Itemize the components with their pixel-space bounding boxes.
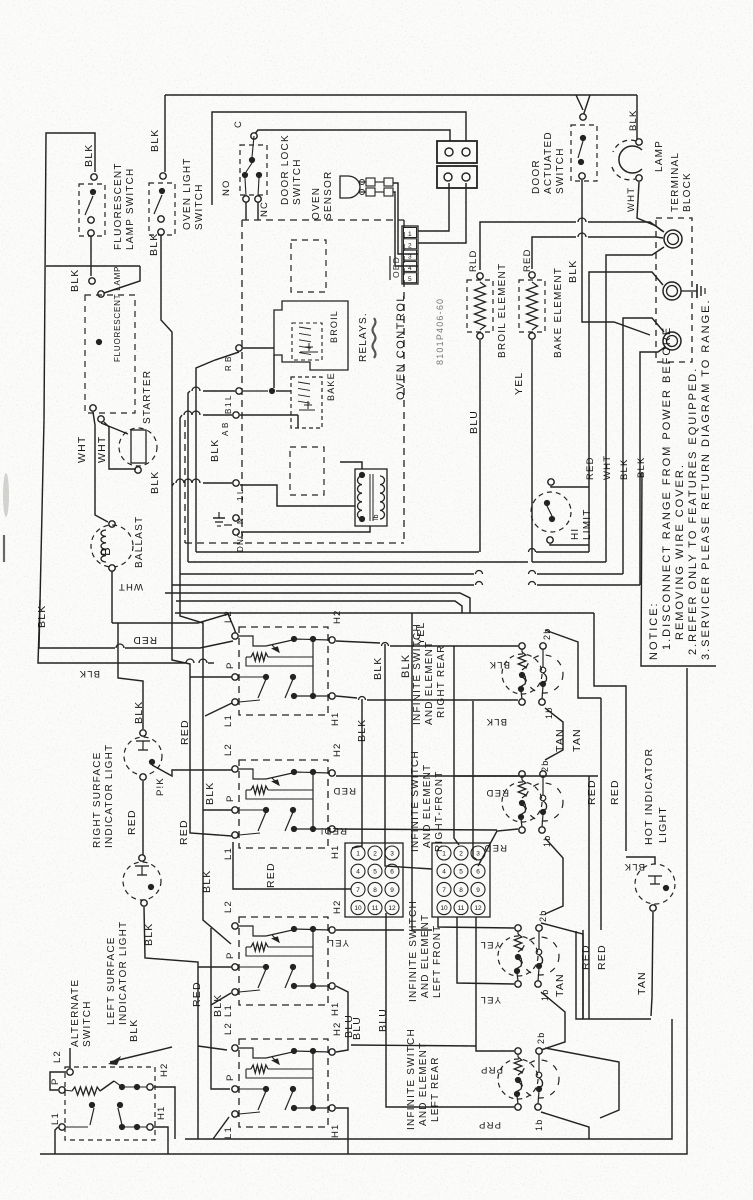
light hot indicator [635,864,675,904]
wire L1 left rear feed [213,1117,229,1139]
terminal GND upper [233,515,239,521]
wire P left front feed [198,966,232,968]
oven sensor probe [340,176,360,198]
switch infinite switch left rear [239,1039,328,1127]
wire H1 left rear to border [336,1108,348,1154]
wire oven light switch to bus [161,235,172,585]
clock module box [290,447,324,495]
wire left light down [144,907,198,1139]
wire bus horizontal lower [165,593,470,613]
wire L1 right rear feed [205,703,232,716]
oven sensor connector [366,178,375,186]
wire element RF left top [455,775,518,777]
mark relays subtitle smudge [373,318,376,358]
ballast B1 [109,521,115,527]
switch alternate switch [65,1067,155,1140]
wire H1 right front [336,829,497,830]
wire H1 LF to H2 LR BLU [336,986,348,1052]
resistor bake element [529,272,535,278]
wire H2 chain down [594,613,626,851]
wire RED riser [589,272,663,552]
spare dashed box upper [291,240,326,292]
wire WHT riser [606,247,664,562]
wire element LR left bottom [386,913,514,1107]
wire 1b left front chain [541,992,565,1050]
ground symbol [681,290,697,292]
wire alternate H2 [154,1087,175,1139]
wire bus horizontal BLK3 [180,573,474,575]
switch infinite switch right rear [239,627,328,715]
wire feed door actuated switch [576,95,583,110]
relay broil [274,301,348,370]
wire L1B node to bake [276,390,291,392]
wire L1 to transformer [240,485,355,506]
wire to fluorescent lamp [90,262,92,276]
wire fluorescent feed frame [39,133,95,648]
wire BR to broil relay [243,347,274,349]
light right surface indicator [124,737,162,775]
lamp oven lamp [636,139,642,145]
wire P right front feed [203,809,232,811]
fluorescent lamp FL1 [89,278,95,284]
wire hi-limit top [551,486,589,487]
starter S1 [119,428,157,466]
switch fluorescent lamp switch [91,174,97,180]
wire element LF left bottom [457,917,514,984]
wire alternate left [50,1072,66,1090]
wire RED vertical b [336,775,598,777]
wire lamp to WHT pair [93,412,108,522]
notice border [641,472,716,666]
wire bus column LF LR [211,928,230,1089]
wire bus BA [203,414,232,416]
mark scan streak left edge [3,535,5,562]
wire L2 into alternate [69,1048,71,1068]
terminal lug L1 [664,230,682,248]
wire H2 right rear to element [336,641,380,643]
wire RED to grid [233,842,351,889]
arrow to bus [110,1047,172,1062]
wire H2 drop to grid [385,644,432,869]
wire relay contacts to connector [418,183,449,231]
wire lamp to terminal block [637,182,662,231]
wire 2b left front to RED [541,923,583,1019]
wire oven light feed [164,95,166,172]
wire border outer [40,668,687,1154]
wire BLK riser 1 [623,318,664,574]
wire H1 right rear to element [336,696,357,698]
wire right tall BLK [412,613,432,930]
resistor broil element [477,273,483,279]
wire oven control top frame [212,112,466,205]
terminal BR [236,345,242,351]
connector pin strip P2 [402,226,418,284]
wire hot light feed [626,857,655,864]
wire bus horizontal RED [196,551,479,553]
wire bake element top [532,237,576,269]
terminal L1B [236,388,242,394]
terminal BA [233,412,239,418]
wire bus BLK surface column [180,574,231,944]
wire red lower pair [582,930,584,1019]
wire outer left BLK bus [38,600,185,663]
surface element [498,936,538,976]
wire bus bottom left [197,1138,199,1140]
wire 1b right front chain [545,838,563,914]
wire door lock C to relay [254,130,450,141]
wire alternate L1 to border [55,1127,58,1154]
wire bus RED surface column [172,585,232,836]
relay contact box upper [437,141,477,163]
wire H2 left front stub [336,929,404,931]
terminal L1 oven control [233,480,239,486]
wire bus L1B [203,390,235,392]
wire 2b left rear drop [545,1048,619,1118]
switch door lock switch [251,133,257,139]
oven control enclosure [242,219,404,221]
wire L1 left front feed [211,993,231,1005]
wire left border to L2 right-rear [39,647,115,649]
wire 1b left rear to border [541,1112,589,1139]
transformer T1 [355,469,387,526]
wire H2 left rear to element row [351,1045,476,1046]
wire RED vertical a [588,776,590,1019]
wire BA to bake [240,414,298,416]
connector grid P3 [432,843,490,917]
wire BLK drop to indicator light [118,623,143,729]
wire L2 H bus upper [175,612,594,614]
wire RED from ballast to L2 [112,614,237,637]
switch door actuated switch [580,114,586,120]
wire PNK to L2 right front [152,765,232,776]
wire 1b right rear chain [545,708,563,760]
wire TAN corner [576,931,651,1019]
wire L2 left rear feed [198,1046,227,1050]
wire door lock to oven control [245,202,247,220]
wire bus extra horizontal [176,601,462,613]
limiter [525,655,563,693]
wire element RR top drop [454,646,459,845]
wire bus horizontal BLK4 [172,584,474,586]
wire door switch to terminal block [582,180,650,335]
wire hot light to TAN [651,912,653,1016]
wire H1 drop to grid [352,699,362,848]
wire sensor to control [393,183,418,254]
thermostat hi-limit [548,479,554,485]
terminal lug L2 [663,332,681,350]
wire 2b right rear chain [545,630,601,698]
wire GND bus to transformer [241,526,370,532]
terminal block enclosure [656,218,692,362]
limiter [521,937,559,975]
wire broil element bottom BLU [479,340,481,552]
wire element RF left bottom [478,829,518,866]
switch infinite switch left front [239,917,328,1005]
wire transformer top [340,462,362,469]
switch infinite switch right front [239,760,328,848]
wire hi-limit bottom [550,544,589,545]
wire BLK riser 2 [640,347,665,585]
switch oven light switch [160,173,166,179]
wire broil element top [480,222,576,270]
wire bake element bottom YEL [531,340,533,562]
limiter [525,783,563,821]
wire top bus to lamp and door switch [165,94,637,96]
relay bake [291,377,322,428]
surface element [502,782,542,822]
light left surface indicator [123,862,161,900]
wire P right rear feed [190,676,232,678]
wire bus L1 [203,482,232,484]
wire element LR left top [476,917,514,1051]
wire ballast to L2 red line [111,571,113,623]
surface element [502,654,542,694]
surface element [498,1059,538,1099]
mark scan smudge top left [3,473,9,517]
wire element RR bottom drop [473,701,477,860]
ground symbol oven control [224,524,232,526]
wire RED between lights [142,781,144,858]
connector grid P1 [345,843,403,917]
wire bus horizontal WHT [188,561,528,563]
wire starter to ballast branch [104,422,136,469]
terminal lug neutral [663,282,681,300]
wire alternate H1 [154,1127,168,1154]
terminal GND lower [233,529,239,535]
limiter [521,1060,559,1098]
wire bus BR [196,352,239,552]
relay contact box lower [437,166,477,188]
wire element LF left top [438,917,514,928]
wire border inner [185,1019,672,1139]
